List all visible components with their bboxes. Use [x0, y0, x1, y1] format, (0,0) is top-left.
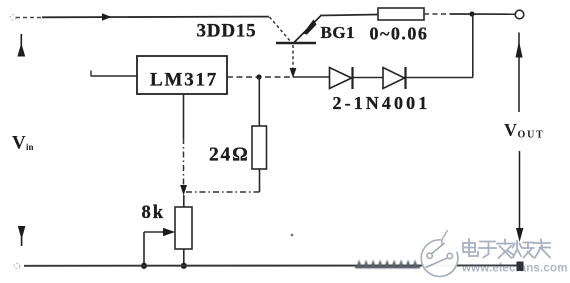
wire: wiper down to ground rail [143, 232, 145, 266]
watermark smudge on rail [355, 260, 420, 269]
label Vin [12, 133, 34, 154]
input terminal (faded) top-left [10, 15, 16, 21]
wire: ground rail segment over watermark [459, 264, 523, 266]
potentiometer RP 8k body [175, 195, 192, 249]
watermark logo circle [421, 230, 458, 276]
wire: dash-dot link 240 to ADJ node [186, 191, 260, 193]
svg-text:2-1N4001: 2-1N4001 [333, 93, 431, 113]
Vin measure arrow down [18, 226, 26, 246]
wire: output line through diodes [293, 76, 473, 79]
node: output top junction [469, 11, 474, 16]
transistor BG1 base bar [276, 42, 316, 44]
wire: 240 resistor bottom down [259, 169, 261, 192]
LM317 regulator U1 box [137, 56, 227, 94]
svg-text:BG1: BG1 [321, 23, 356, 42]
current-direction arrow on top rail [102, 13, 112, 20]
ground terminal (faded) bottom-left [14, 263, 20, 269]
wire: pot bottom to ground rail [183, 249, 185, 266]
resistor 240ohm box [252, 126, 267, 169]
wire: diode output up to terminal rail [472, 14, 474, 78]
watermark chinese text (stylized strokes) [463, 239, 550, 258]
diode D1 (1N4001) [330, 67, 353, 89]
wire: top input rail to transistor collector [42, 16, 269, 19]
stray scan speck [291, 234, 294, 237]
svg-text:in: in [26, 142, 34, 152]
wire: shunt resistor to output terminal (part dashed) [424, 13, 515, 15]
svg-text:24Ω: 24Ω [209, 145, 250, 166]
wire: junction down to 240 resistor [258, 77, 260, 126]
label BG1 [321, 23, 356, 42]
wire: bottom ground rail [24, 264, 527, 266]
wire: LM317 ADJ pin down (solid then dash-dot) [180, 94, 187, 196]
svg-text:LM317: LM317 [150, 70, 218, 91]
node: LM317 output / 240 resistor junction [256, 74, 261, 79]
watermark url text [461, 263, 568, 275]
label LM317 [150, 70, 218, 91]
transistor BG1 base lead dashed down with arrowhead [290, 45, 297, 78]
svg-text:OUT: OUT [518, 130, 545, 141]
wire: top input rail dashed lead-in [16, 17, 42, 19]
node: pot-ground junction [181, 263, 187, 269]
resistor 0~0.06 box [378, 8, 424, 20]
label Vout [504, 120, 545, 141]
wire: LM317 output pin to base node (part dashed) [227, 76, 293, 78]
dark mark where Vout arrow meets rail [517, 262, 524, 272]
transistor BG1 collector lead (faded dashed) [270, 17, 292, 42]
svg-text:V: V [12, 133, 26, 154]
node: wiper-ground junction [141, 263, 147, 269]
potentiometer wiper arrow [144, 228, 175, 236]
wire: emitter to shunt resistor [320, 15, 378, 16]
label 3DD15 [197, 21, 257, 42]
label 240ohm [209, 145, 250, 166]
label 2-1N4001 [333, 93, 431, 113]
svg-text:0~0.06: 0~0.06 [370, 24, 429, 44]
Vin measure arrow up [17, 34, 25, 57]
svg-text:3DD15: 3DD15 [197, 21, 257, 42]
svg-text:V: V [504, 120, 517, 140]
wire: LM317 input pin stub (left) [91, 71, 137, 77]
svg-text:8k: 8k [142, 203, 166, 223]
Vout measure arrow up [516, 33, 523, 113]
diode D2 (1N4001) [383, 67, 406, 89]
output terminal circle [515, 10, 524, 19]
Vout measure arrow down [516, 151, 523, 242]
label 0~0.06 [370, 24, 429, 44]
transistor BG1 emitter lead with arrow [294, 16, 321, 43]
label 8k [142, 203, 166, 223]
svg-text:www.elecfans.com: www.elecfans.com [461, 263, 568, 275]
